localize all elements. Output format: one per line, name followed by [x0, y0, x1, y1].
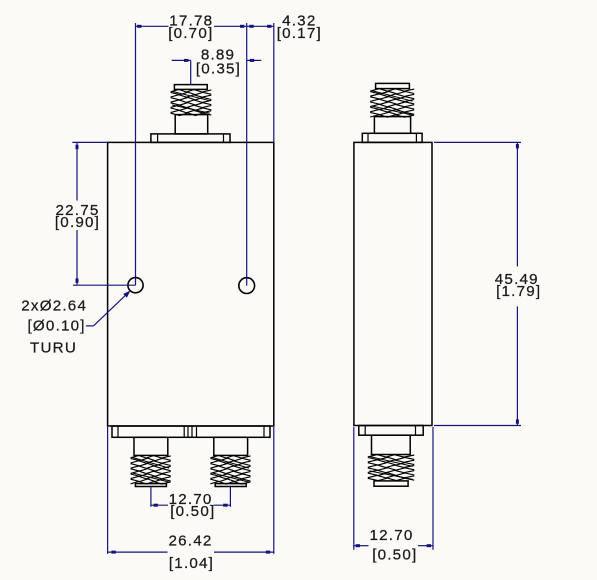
top connector end cap front view	[174, 85, 207, 90]
hole leader line	[86, 325, 94, 327]
bottom right connector thread	[210, 456, 250, 459]
dim 8.89 right stub	[247, 59, 262, 61]
bottom connector flange front view	[112, 426, 270, 437]
svg-text:[Ø0.10]: [Ø0.10]	[27, 318, 85, 335]
svg-text:26.42: 26.42	[168, 532, 212, 549]
dim 4.32 arrow left	[249, 25, 253, 28]
top connector barrel front view	[175, 115, 208, 134]
side top thread	[370, 89, 414, 92]
dim 12.70 front ext right	[229, 487, 231, 507]
bottom right connector barrel	[214, 437, 248, 455]
bottom flange step ticks	[117, 426, 119, 437]
dim 17.78 extension line left hole	[135, 23, 137, 285]
side bottom thread	[368, 455, 415, 458]
dim 12.70 front ext left	[150, 487, 152, 507]
dim 8.89 left stub	[172, 59, 191, 61]
dim 26.42 ext right	[273, 427, 275, 554]
dim 45.49 line upper	[516, 142, 518, 266]
svg-text:[1.04]: [1.04]	[169, 555, 214, 572]
dim 45.49 arrow top	[516, 144, 519, 148]
dim 8.89 arrow right	[250, 59, 254, 62]
mounting hole right	[239, 278, 255, 294]
top flange step ticks	[157, 134, 159, 143]
svg-text:12.70: 12.70	[369, 527, 413, 544]
dim 22.75 arrow bottom	[76, 278, 79, 282]
hole leader arrowhead	[123, 290, 130, 297]
dim 12.70 front arrow right	[223, 504, 227, 507]
dim 26.42 line left	[108, 551, 168, 553]
side top flange	[362, 133, 422, 142]
svg-text:[0.50]: [0.50]	[372, 547, 417, 564]
dim 12.70 side arrow left	[356, 544, 360, 547]
dim 26.42 arrow right	[266, 551, 270, 554]
dim 4.32 extension line body right edge	[273, 23, 275, 142]
top connector thread front view	[171, 90, 212, 93]
side top barrel	[374, 117, 410, 134]
svg-text:[0.35]: [0.35]	[196, 61, 241, 78]
dim 12.70 side line right	[418, 545, 433, 547]
body outline side view	[354, 142, 432, 425]
dim 22.75 bottom extension line	[73, 284, 136, 286]
bottom left connector barrel	[134, 437, 168, 455]
bottom right connector end cap	[215, 484, 246, 487]
dim 4.32 line	[247, 25, 274, 27]
top connector flange front view	[151, 134, 230, 143]
dim 45.49 bottom ext	[434, 425, 521, 427]
dim 45.49 arrow bottom	[516, 419, 519, 423]
dim 17.78 arrow left	[137, 25, 141, 28]
svg-text:[0.50]: [0.50]	[170, 503, 215, 520]
dim 17.78 extension line right hole	[246, 23, 248, 286]
dim 22.75 line upper segment	[76, 142, 78, 200]
svg-text:TURU: TURU	[30, 339, 77, 356]
dim 22.75 top extension line	[72, 141, 107, 143]
svg-text:[0.17]: [0.17]	[277, 25, 322, 42]
dim 12.70 front line left	[151, 504, 168, 506]
side bottom barrel	[372, 435, 411, 454]
side top end cap	[376, 83, 410, 88]
dim 12.70 side ext right	[432, 427, 434, 550]
mounting hole left	[128, 278, 143, 293]
dim 22.75 line lower segment	[76, 230, 78, 285]
dim 22.75 arrow top	[76, 145, 79, 149]
dim 17.78 line left segment	[136, 25, 169, 27]
dim 45.49 line lower	[516, 306, 518, 425]
dim 4.32 arrow right	[267, 25, 271, 28]
svg-text:2xØ2.64: 2xØ2.64	[21, 297, 87, 314]
dim 12.70 front arrow left	[154, 504, 158, 507]
dim 17.78 line right segment	[214, 25, 247, 27]
dim 45.49 top ext	[434, 141, 521, 143]
dim 17.78 arrow right	[240, 25, 244, 28]
dim 8.89 centerline extension	[190, 60, 192, 84]
dim 8.89 arrow left	[184, 59, 188, 62]
side bottom end cap	[374, 481, 408, 486]
bottom left connector end cap	[135, 484, 166, 487]
svg-text:[0.90]: [0.90]	[55, 214, 100, 231]
dim 26.42 ext left	[107, 427, 109, 554]
dim 12.70 side arrow right	[427, 544, 431, 547]
bottom left connector thread	[131, 456, 171, 459]
dim 12.70 side ext left	[353, 427, 355, 550]
svg-text:[0.70]: [0.70]	[168, 25, 213, 42]
dim 26.42 arrow left	[111, 551, 115, 554]
side bottom flange	[359, 426, 423, 436]
svg-text:[1.79]: [1.79]	[496, 283, 541, 300]
dim 12.70 side line left	[354, 545, 369, 547]
dim 26.42 line right	[214, 551, 274, 553]
body outline front view	[108, 142, 274, 426]
dim 12.70 front line right	[214, 504, 231, 506]
